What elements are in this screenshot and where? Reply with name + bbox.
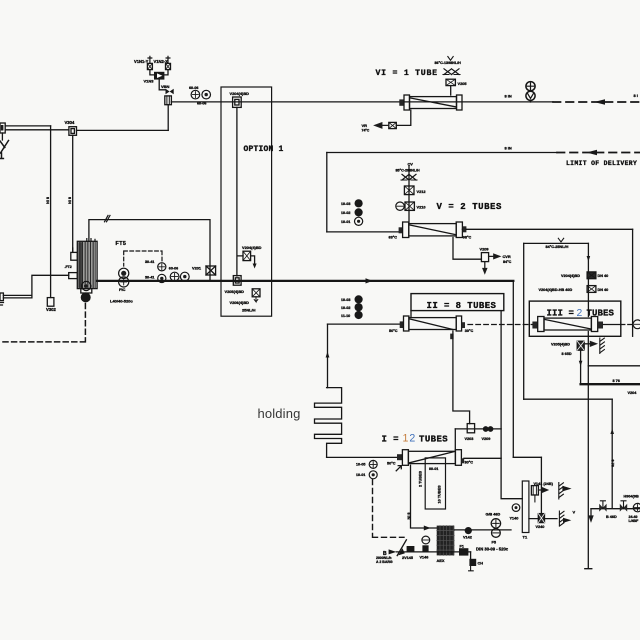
svg-text:OPTION 1: OPTION 1: [244, 145, 284, 154]
svg-text:H904(9B: H904(9B: [624, 495, 639, 499]
node arrow down x580: [579, 361, 583, 367]
wire V304 right to riser: [77, 129, 169, 131]
valve V209: [481, 253, 488, 262]
node arrow under V205: [254, 297, 258, 302]
wire III dashed feed left: [468, 324, 532, 326]
gauge stack V 1: [355, 199, 363, 207]
svg-text:8 76: 8 76: [611, 460, 615, 467]
svg-text:FIC: FIC: [119, 287, 126, 292]
valve gate right 1: [599, 501, 606, 512]
gauge FIC upper: [119, 268, 129, 278]
wire U link right: [164, 70, 168, 75]
svg-text:TUBES: TUBES: [419, 434, 448, 444]
svg-text:8 IN: 8 IN: [46, 197, 50, 204]
node III right stub: [598, 322, 603, 329]
svg-text:V209: V209: [480, 246, 490, 251]
node vent hatch top: [559, 483, 564, 500]
node feed box far left: [0, 123, 5, 133]
heat exchanger V: [403, 222, 463, 238]
gauge F5 bottom: [492, 529, 501, 538]
gauge pair on bus 2: [180, 272, 189, 281]
valve row2: [587, 286, 596, 293]
node arrow down III feed: [587, 256, 591, 262]
wire dashed bus top continuation: [553, 101, 640, 103]
node dashed arrow left: [594, 99, 605, 105]
svg-text:V204(4)BD-HB 40D: V204(4)BD-HB 40D: [539, 288, 573, 292]
heat exchanger VI: [404, 95, 462, 110]
gauge stack II 1: [355, 295, 363, 303]
gauge bus-top 2: [202, 90, 211, 99]
svg-text:VR: VR: [362, 123, 368, 128]
node vent hatch symbol: [600, 338, 605, 354]
svg-text:8 IN: 8 IN: [407, 513, 411, 520]
label I = 12 TUBES: [382, 433, 449, 445]
gauge bus-top 1: [191, 90, 200, 99]
svg-text:III =: III =: [547, 308, 575, 318]
node bottom-left box: [0, 293, 4, 305]
wire box B2 right edge: [611, 399, 613, 507]
gauge V142: [465, 527, 472, 534]
node PSV cross arrows VI: [444, 69, 459, 75]
svg-text:V146: V146: [420, 555, 429, 559]
wire down x541: [540, 457, 542, 513]
wire bottom-left L: [3, 275, 68, 298]
svg-text:CH: CH: [478, 562, 484, 566]
wire II outlet down: [453, 331, 470, 424]
gauge stack II 3: [355, 311, 363, 319]
svg-text:V205(4)BD: V205(4)BD: [551, 342, 570, 346]
svg-text:VI = 1 TUBE: VI = 1 TUBE: [376, 69, 438, 78]
svg-text:10 TUBES: 10 TUBES: [438, 485, 442, 504]
valve V240 box: [538, 514, 544, 523]
valve V1N1 mini: [147, 63, 152, 69]
valve V146 box: [422, 545, 428, 552]
svg-text:Y140: Y140: [510, 517, 519, 521]
svg-text:F1: F1: [460, 545, 464, 549]
svg-text:I =: I =: [382, 434, 399, 444]
valve gate right 2: [620, 501, 627, 512]
wire V outlet elbow: [453, 238, 481, 260]
wire bus circuit V: [327, 231, 399, 233]
wire dashed drain down-left: [0, 304, 85, 342]
valve V212 box-X: [404, 186, 414, 195]
heat exchanger I: [402, 450, 461, 466]
heat exchanger FTS (vertical plate): [77, 239, 97, 289]
wire VI vent riser: [450, 86, 452, 95]
node II left stub: [400, 321, 404, 328]
svg-text:60-06: 60-06: [169, 266, 178, 270]
svg-text:L/4BF: L/4BF: [629, 519, 640, 523]
node small v arrow top: [448, 57, 453, 61]
wire elbow to VBN: [159, 80, 165, 90]
svg-text:00-01: 00-01: [429, 467, 438, 471]
svg-text:II = 8 TUBES: II = 8 TUBES: [427, 301, 497, 311]
gauge 30-41 lower circle: [158, 274, 166, 282]
svg-text:11-10: 11-10: [341, 314, 350, 318]
svg-text:T1: T1: [523, 535, 528, 540]
node V left stub: [399, 227, 403, 233]
node diag arrow into I: [396, 466, 401, 471]
node arrow B feed: [389, 549, 397, 554]
node arrow right of valve: [584, 342, 596, 346]
wire upper line right of AEX: [454, 529, 511, 531]
node big arrow right: [562, 486, 571, 492]
valve VBN bowtie: [166, 89, 174, 95]
valve V302: [47, 298, 54, 307]
wire box top y365: [588, 365, 640, 367]
wire holding coil serpentine: [315, 388, 342, 458]
wire bottom right valve line: [591, 508, 640, 510]
valve option on bus: [233, 276, 241, 286]
svg-text:LIMIT OF DELIVERY: LIMIT OF DELIVERY: [566, 160, 637, 167]
svg-text:60-06: 60-06: [189, 86, 198, 90]
wire elbow right y457: [513, 456, 541, 458]
wire FT5 dashed link: [124, 251, 162, 266]
svg-text:V302: V302: [46, 307, 56, 312]
node FT inlet connector: [71, 248, 78, 260]
wire down to I right cap: [454, 429, 456, 450]
svg-text:84°C-25NL/H: 84°C-25NL/H: [546, 245, 569, 249]
valve VI drain box-X: [389, 122, 397, 128]
valve V205 vent box-X: [446, 79, 455, 85]
wire vertical 8IN left: [50, 126, 52, 298]
node arrow down stub: [589, 509, 593, 521]
valve V20(4)BD under III: [577, 341, 584, 350]
svg-text:10-03: 10-03: [341, 298, 350, 302]
svg-text:86°C-1398NL/H: 86°C-1398NL/H: [435, 61, 462, 65]
node bus arrow right: [366, 278, 373, 283]
wire T1 side line: [529, 518, 557, 520]
svg-text:10-05: 10-05: [356, 463, 365, 467]
gauge top-right 2: [526, 91, 535, 100]
svg-text:2 TUBES: 2 TUBES: [419, 470, 423, 487]
gauge twin dark: [483, 426, 494, 432]
svg-text:8 IN: 8 IN: [505, 93, 512, 98]
gauge stack V 2: [355, 208, 363, 216]
wire VI drain down-left: [396, 110, 411, 125]
box tube count table: [425, 458, 445, 509]
node arrow to VR: [375, 123, 389, 128]
svg-text:10-03: 10-03: [341, 202, 350, 206]
svg-text:V1N3: V1N3: [144, 79, 155, 84]
svg-text:DIN 30-09 - 520c: DIN 30-09 - 520c: [476, 546, 509, 551]
wire top pair to corner: [5, 125, 50, 127]
node II outlet flange: [450, 334, 453, 340]
svg-text:V201: V201: [192, 266, 202, 271]
valve VBN2 box: [165, 96, 172, 105]
svg-text:FT5: FT5: [116, 241, 127, 247]
svg-text:V204(4)BD: V204(4)BD: [230, 91, 250, 96]
svg-text:TUBES: TUBES: [587, 308, 615, 318]
svg-text:10-02: 10-02: [341, 306, 350, 310]
svg-text:8 65D: 8 65D: [562, 352, 572, 356]
svg-text:V205(4)BD: V205(4)BD: [225, 289, 245, 294]
svg-text:8 I: 8 I: [634, 93, 638, 98]
gauge I bottom 1: [369, 460, 377, 468]
node FTS lower connector: [69, 273, 78, 279]
wire elbow down to CH: [470, 552, 472, 559]
node arrow to CVR: [489, 254, 500, 258]
svg-text:V1N1-Y: V1N1-Y: [134, 59, 149, 64]
svg-text:V204(4)BD: V204(4)BD: [242, 245, 262, 250]
node I left stub: [397, 454, 402, 460]
svg-text:.FT2: .FT2: [65, 265, 72, 269]
wire x588 lower segment: [585, 332, 592, 569]
node arrow up x612: [610, 429, 614, 435]
gauge right edge circle: [633, 503, 640, 511]
valve F1 box: [459, 548, 468, 555]
box label II = 8 TUBES: [411, 294, 504, 311]
wire box III left edge: [523, 243, 525, 399]
valve V204 top: [233, 97, 242, 107]
svg-text:10-01: 10-01: [356, 473, 365, 477]
wire III feed vertical: [587, 243, 589, 316]
node VI left stub: [399, 99, 404, 105]
gauge top-right 1: [526, 82, 535, 91]
wire V vent riser: [408, 166, 410, 224]
svg-text:V304: V304: [65, 120, 75, 125]
svg-text:V212: V212: [417, 189, 427, 194]
gauge V210 circle: [396, 202, 404, 210]
node vent hatch lower: [559, 511, 564, 526]
wire box V left edge: [326, 153, 328, 232]
node limit arrow left: [587, 150, 598, 156]
wire branch arrow: [251, 256, 255, 264]
node arrow lower right: [563, 518, 571, 523]
gauge 30-41 upper circle: [158, 263, 166, 271]
valve V210 box-X: [405, 202, 414, 210]
svg-text:30-41: 30-41: [145, 260, 154, 264]
node II right stub: [462, 322, 465, 328]
svg-text:V206(4)BD: V206(4)BD: [230, 300, 250, 305]
box label III = 2 TUBES: [529, 301, 621, 336]
node III left stub: [532, 322, 537, 329]
wire option riser: [237, 107, 243, 276]
node stems above mini valves: [148, 56, 170, 63]
node small v arrow III: [558, 238, 563, 242]
valve V1N3 control: [154, 72, 164, 80]
node arrow up left edge: [326, 352, 330, 358]
node PSV cross arrows V: [402, 174, 416, 180]
svg-text:10-01: 10-01: [341, 220, 350, 224]
svg-text:60-06: 60-06: [197, 101, 206, 105]
svg-text:63°C: 63°C: [389, 236, 398, 240]
node I right stub: [461, 458, 464, 463]
valve V1N2 mini: [166, 63, 171, 69]
wire III right to box edge: [603, 324, 621, 326]
wire box III outer right edge: [632, 229, 634, 336]
gauge FTS dark circle: [81, 292, 91, 302]
wire box III inner top: [524, 242, 589, 244]
svg-text:DN 40: DN 40: [598, 288, 609, 292]
valve V205: [252, 289, 260, 297]
wire bus corner down: [512, 281, 514, 457]
wire vertical from V304 down: [72, 135, 74, 252]
svg-text:12: 12: [403, 433, 417, 445]
heat exchanger II: [404, 316, 462, 331]
svg-text:50°C: 50°C: [389, 329, 398, 333]
gauge I bottom 2: [369, 471, 377, 479]
svg-text:30-41: 30-41: [145, 275, 154, 279]
node stub box V right: [463, 226, 467, 232]
node arrow right y528: [424, 526, 431, 531]
wire valve line to riser: [455, 428, 501, 430]
svg-text:74°C: 74°C: [362, 128, 370, 132]
gauge pair on bus 1: [170, 272, 179, 281]
gauge FTS bottom circle: [82, 281, 91, 290]
wire stem below feed box: [1, 133, 3, 140]
wire U link left: [150, 70, 154, 75]
node Y branch symbol: [0, 141, 9, 159]
label III = 2 TUBES: [547, 308, 615, 319]
svg-text:25NL/H: 25NL/H: [242, 307, 256, 312]
wire II inlet line: [328, 323, 400, 325]
svg-text:V142: V142: [463, 535, 472, 539]
svg-text:V209: V209: [482, 437, 491, 441]
svg-text:B 46D: B 46D: [606, 515, 617, 519]
valve dark box on line: [407, 546, 415, 552]
wire FTS top riser and over: [89, 220, 210, 281]
valve CH box: [469, 559, 476, 566]
valve V141: [531, 486, 538, 502]
node tick under CH: [469, 566, 474, 571]
svg-text:V203: V203: [465, 437, 474, 441]
wire V outlet stub right: [462, 228, 466, 230]
svg-text:V: V: [573, 510, 576, 515]
wire valve down to header: [580, 350, 582, 384]
svg-text:8 IN: 8 IN: [505, 146, 512, 151]
svg-text:DN 40: DN 40: [598, 274, 609, 278]
node line tick B4: [105, 215, 111, 221]
valve inner option branch: [243, 251, 251, 260]
svg-text:10-02: 10-02: [341, 211, 350, 215]
box OPTION 1: [221, 87, 272, 316]
svg-text:CVR: CVR: [503, 254, 511, 259]
svg-text:AEX: AEX: [437, 558, 445, 563]
gauge III right circle: [633, 320, 640, 329]
svg-text:2V145: 2V145: [402, 556, 413, 560]
wire circuit I bottom line: [327, 456, 397, 458]
valve V203: [467, 424, 474, 433]
wire gauge stem top-right: [530, 100, 532, 102]
svg-text:V = 2 TUBES: V = 2 TUBES: [437, 202, 503, 212]
gauge stack V 3: [355, 217, 363, 225]
wire dashed from gauges down: [373, 480, 405, 538]
gauge FIC lower: [119, 277, 129, 287]
svg-text:L40/40-520c: L40/40-520c: [110, 299, 133, 304]
wire limit-of-delivery dashed: [557, 152, 640, 154]
gauge stack II 2: [355, 303, 363, 311]
wire main bus top: [171, 101, 553, 103]
svg-text:50°C: 50°C: [387, 462, 396, 466]
svg-text:V204: V204: [628, 391, 638, 395]
svg-text:V240: V240: [536, 525, 545, 529]
svg-text:V204(4)BD: V204(4)BD: [561, 274, 580, 278]
valve 2V145 angle: [397, 540, 406, 556]
wire I outlet right: [464, 457, 501, 459]
svg-text:F5: F5: [492, 540, 497, 545]
svg-text:8 IN: 8 IN: [67, 197, 71, 204]
column T1: [522, 481, 529, 533]
svg-text:8 76: 8 76: [613, 379, 620, 383]
gauge Y140: [512, 504, 520, 512]
svg-text:G/B 46D: G/B 46D: [486, 512, 501, 516]
heat exchanger AEX block: [437, 526, 455, 556]
gauge V146 circle: [422, 536, 430, 544]
wire riser x501: [501, 311, 522, 499]
svg-text:2: 2: [577, 308, 583, 319]
wire lower to V304: [5, 129, 69, 131]
wire III dashed right: [621, 324, 633, 326]
wire header thick right: [581, 383, 640, 385]
svg-text:30°C: 30°C: [465, 329, 474, 333]
svg-text:A 2 BARG: A 2 BARG: [376, 560, 393, 564]
wire I drain down: [411, 465, 437, 528]
node arrow V141: [538, 488, 547, 492]
wire bottom main line: [396, 551, 470, 553]
valve V201 box-X: [206, 266, 216, 275]
gauge F5 top: [491, 519, 500, 528]
node arrow below V209: [483, 262, 487, 273]
svg-text:VBN: VBN: [161, 84, 170, 89]
svg-text:98°C: 98°C: [463, 236, 472, 240]
svg-text:holding: holding: [258, 406, 301, 421]
wire box III outer top: [466, 228, 633, 230]
wire main bus circuit II: [97, 280, 513, 282]
svg-text:V205: V205: [458, 81, 468, 86]
wire II box left edge: [327, 324, 329, 388]
svg-text:84°C: 84°C: [503, 260, 512, 264]
svg-text:30°C: 30°C: [465, 461, 474, 465]
svg-text:CV: CV: [408, 162, 414, 167]
heat exchanger III: [538, 317, 598, 332]
valve row1: [587, 272, 596, 279]
node FTS bottom stub: [81, 289, 92, 293]
wire limit-of-delivery solid: [327, 152, 557, 154]
wire riser x=168 up to VBN2: [167, 105, 169, 130]
wire box B2 top: [524, 398, 613, 400]
svg-text:85°C-298NL/H: 85°C-298NL/H: [396, 168, 421, 172]
valve V304: [69, 127, 77, 136]
svg-text:V210: V210: [417, 204, 426, 209]
